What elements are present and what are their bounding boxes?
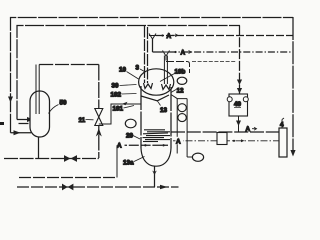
pipe 101 from reactor to valve 11 xyxy=(99,104,141,124)
channel circle upper xyxy=(178,104,186,112)
nozzle tube pair right xyxy=(163,56,165,85)
valve on bottom outlet xyxy=(62,184,73,191)
reactor bottom dome xyxy=(141,148,171,166)
svg-text:40: 40 xyxy=(234,101,242,108)
wire twin feed lines into vessel 50 xyxy=(17,119,30,121)
wire channel line to condenser 4 xyxy=(173,140,279,142)
label 13 xyxy=(157,101,160,106)
port 12 ellipse xyxy=(177,77,187,84)
svg-text:50: 50 xyxy=(60,100,68,107)
wire line 1 with funnel valve xyxy=(149,34,156,40)
wire sparger riser xyxy=(116,145,118,177)
arrow down on scrubber feed xyxy=(237,80,242,86)
vessel 50 xyxy=(30,91,50,137)
nozzle M right xyxy=(162,84,171,90)
svg-text:11: 11 xyxy=(79,117,86,124)
liquid hatching in reactor xyxy=(143,130,171,142)
wire outer right vertical xyxy=(292,17,294,153)
svg-text:30: 30 xyxy=(112,83,120,90)
wire bottom return line xyxy=(19,177,117,179)
reactor shell left wall xyxy=(140,86,142,148)
funnel baffle xyxy=(141,95,169,101)
pump bowl bottom right xyxy=(187,156,192,158)
svg-text:20: 20 xyxy=(126,133,134,140)
label 50 xyxy=(49,105,59,114)
wire scrubber outlet xyxy=(238,116,240,132)
scrubber circle right xyxy=(243,97,248,102)
arrow right on feed line xyxy=(14,130,21,135)
svg-text:3: 3 xyxy=(136,65,140,72)
reactor sphere 10 xyxy=(139,69,174,95)
nozzle M left xyxy=(144,83,153,89)
wire branch to port 12 xyxy=(166,62,190,74)
wire vessel 50 drain xyxy=(38,137,40,159)
wire line 2 with funnel valve xyxy=(163,51,170,57)
arrow down on scrubber outlet xyxy=(236,121,241,127)
trap box on line xyxy=(217,133,227,145)
wire feed to scrubber 40 xyxy=(239,26,241,95)
arrow right on outlet xyxy=(160,185,168,189)
arrow on pipe 101 xyxy=(122,102,128,106)
svg-text:101: 101 xyxy=(113,106,124,113)
pump ellipse left of reactor xyxy=(125,119,136,128)
left edge mark xyxy=(0,122,4,125)
nozzle tube pair left xyxy=(144,26,146,84)
wire outer loop top xyxy=(11,18,294,133)
wire bottom outlet line xyxy=(17,186,179,188)
condenser 4 xyxy=(279,128,287,157)
svg-text:A: A xyxy=(167,33,172,40)
svg-text:10: 10 xyxy=(119,67,127,74)
svg-text:A: A xyxy=(176,138,181,145)
wire reactor drain xyxy=(154,166,156,187)
wire valve 11 riser xyxy=(98,65,100,159)
svg-text:102: 102 xyxy=(111,92,122,99)
valve on bottom loop xyxy=(64,155,77,162)
arrow up below valve 11 xyxy=(96,128,102,137)
svg-text:A: A xyxy=(181,50,186,57)
wire reactor offgas to condenser 4 xyxy=(171,131,279,133)
svg-text:13: 13 xyxy=(160,107,168,114)
svg-text:13a: 13a xyxy=(123,160,134,167)
node A on channel line xyxy=(176,137,184,145)
node A at sparger inlet xyxy=(117,141,125,149)
flow arrow down on outer left vertical xyxy=(8,97,13,103)
reactor shell right wall xyxy=(170,87,172,148)
channel circle lower xyxy=(178,114,186,122)
sparger line A into reactor xyxy=(117,144,168,146)
svg-text:10b: 10b xyxy=(175,69,186,76)
svg-text:12: 12 xyxy=(177,88,185,95)
wire feed into vessel 50 lower left xyxy=(11,132,32,134)
svg-text:A: A xyxy=(117,142,122,149)
wire bottom loop xyxy=(4,158,99,160)
arrow into vessel 50 xyxy=(27,117,34,122)
arrow down at condenser 4 inlet xyxy=(290,150,295,157)
tick arrows on drain xyxy=(152,171,157,176)
wire dip tube to valve 11 xyxy=(39,64,99,66)
dip tube into vessel 50 xyxy=(35,65,37,115)
wire inner top line xyxy=(17,26,240,120)
circulation channel on reactor right xyxy=(171,95,187,99)
svg-text:A: A xyxy=(246,126,251,133)
scrubber 40 xyxy=(229,94,248,116)
valve 11 xyxy=(95,109,103,126)
scrubber circle left xyxy=(227,97,232,102)
